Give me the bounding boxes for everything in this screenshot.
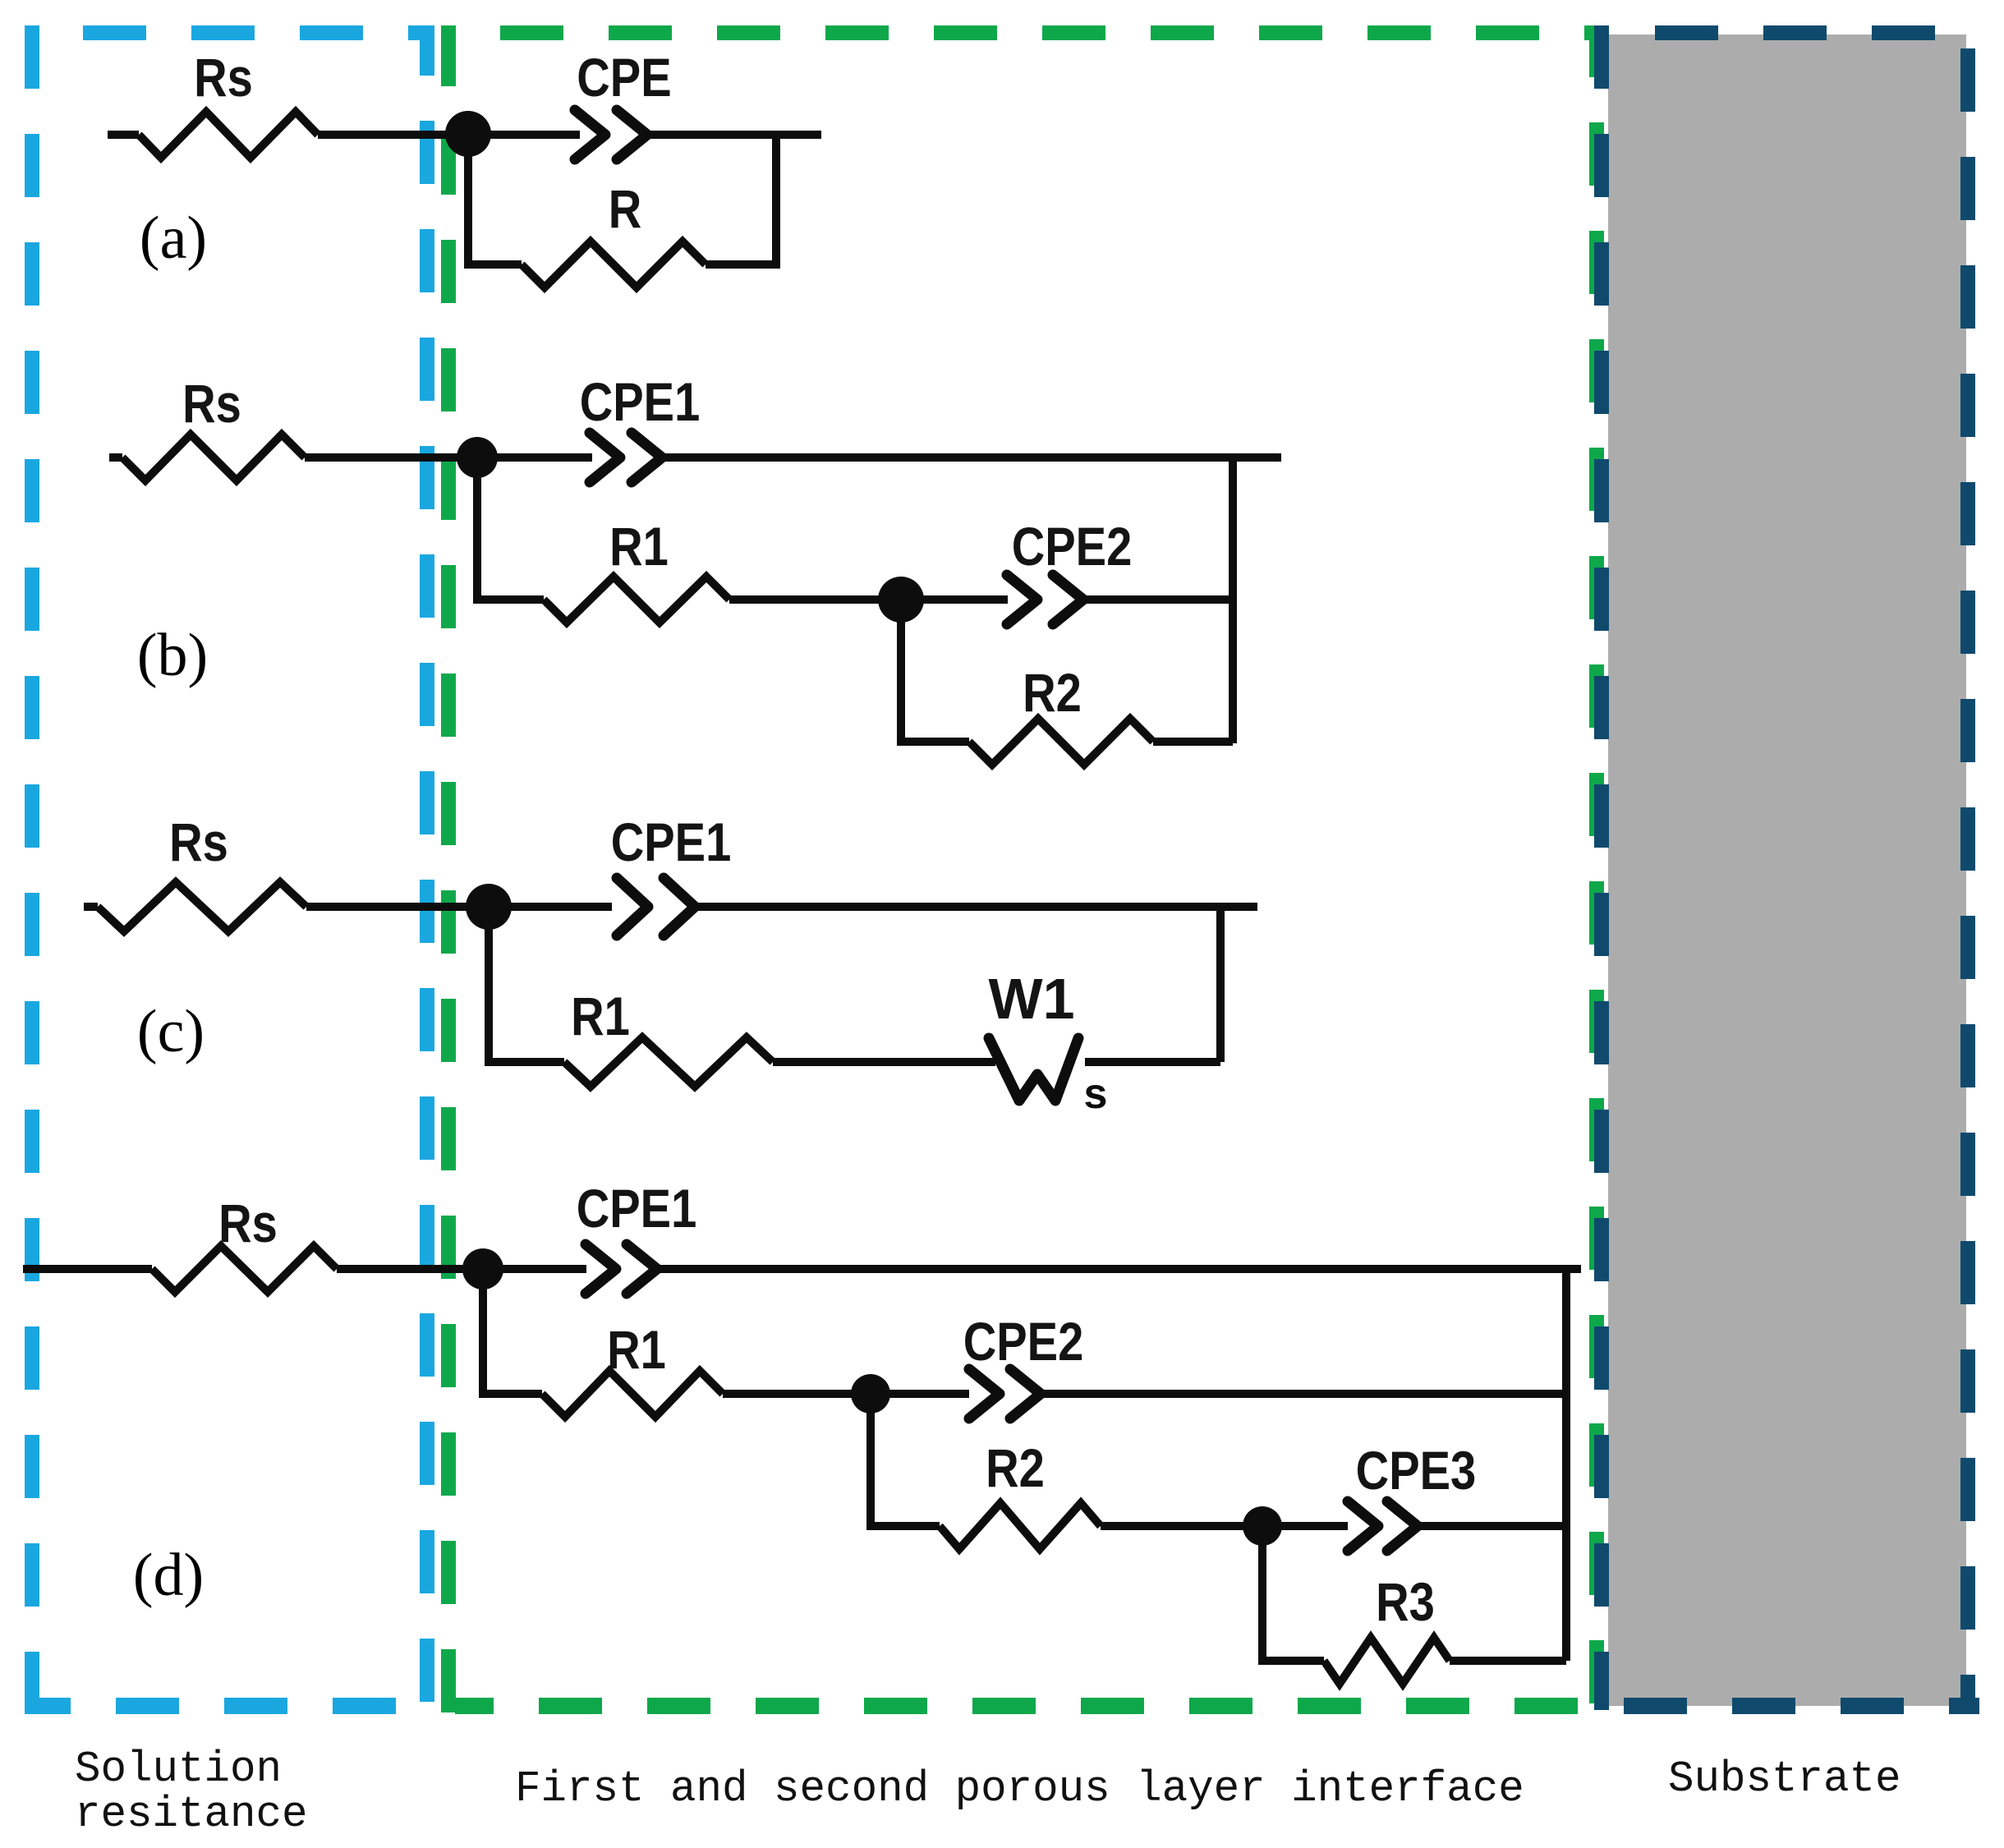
wire (c) right vertical [1216,907,1225,1062]
porous layer interface box (green dashed) left edge [441,25,456,1714]
solution resistance box (blue dashed) right edge [420,25,434,1714]
CPE (a) [575,110,605,159]
wire (d) node2 to CPE2 [871,1390,969,1398]
wire (d) CPE2 to right vertical [1044,1390,1566,1398]
wire (d) node3 to CPE3 [1262,1522,1348,1530]
wire (a) Rs to node [318,131,580,139]
svg-text:s: s [1084,1070,1108,1118]
wire (d) R3 loop left [1262,1531,1324,1661]
resistor Rs (c) [98,882,306,931]
wire (d) R1 to node2 [723,1390,871,1398]
svg-text:Rs: Rs [182,374,241,434]
porous layer interface box (green dashed) right edge [1589,25,1604,1714]
svg-text:Solution: Solution [75,1745,282,1794]
svg-text:R3: R3 [1376,1572,1435,1632]
wire (b) R2 loop left [901,605,969,742]
solution resistance box (blue dashed) top edge [83,25,434,40]
solution resistance box (blue dashed) left edge [25,25,39,1714]
resistor Rs (d) [152,1246,337,1292]
solution resistance box (blue dashed) bottom edge [25,1698,434,1714]
svg-text:Rs: Rs [218,1193,278,1253]
substrate box (navy dashed) top edge [1655,25,1968,40]
svg-text:(b): (b) [137,622,208,689]
resistor R (a) [522,241,706,287]
wire (c) Rs to node [306,903,612,911]
Warburg element Ws (c) [989,1038,1078,1101]
wire (d) Rs to node [337,1265,586,1273]
svg-text:R1: R1 [571,986,630,1046]
porous layer interface box (green dashed) top edge [500,25,1597,40]
wire (b) node2 to CPE2 [901,595,1008,604]
wire (b) CPE1 to right end [664,453,1281,462]
svg-text:Rs: Rs [194,48,253,108]
wire (b) Rs to node [305,453,592,462]
CPE2 (b) [1007,575,1037,624]
wire (c) Warburg to right vertical [1085,1058,1220,1066]
porous layer interface box (green dashed) bottom edge [455,1698,1597,1714]
svg-text:R2: R2 [1023,663,1082,723]
svg-text:CPE3: CPE3 [1356,1441,1477,1501]
svg-text:R1: R1 [607,1320,666,1380]
wire (b) right vertical [1229,457,1237,743]
wire (d) input lead [23,1265,152,1273]
substrate box (navy dashed) left edge [1594,25,1609,1710]
CPE1 (c) [617,878,648,935]
svg-text:First and second porous layer: First and second porous layer interface [515,1764,1524,1814]
svg-text:CPE1: CPE1 [611,812,732,872]
wire (a) CPE to end [650,131,821,139]
svg-text:R1: R1 [609,517,669,577]
substrate box (navy dashed) bottom edge [1602,1698,1979,1714]
svg-text:R2: R2 [986,1438,1045,1498]
node 1 (b) [457,437,498,478]
svg-text:resitance: resitance [75,1790,308,1839]
CPE1 (d) [586,1244,616,1294]
resistor R1 (b) [544,577,729,623]
wire (d) node2 down [871,1399,940,1526]
node 2 (b) [878,577,924,623]
node (c) [466,884,512,930]
wire (b) input lead [109,453,122,462]
svg-text:CPE1: CPE1 [577,1179,697,1239]
wire (c) R1 to Warburg [773,1058,995,1066]
svg-text:(a): (a) [140,205,207,272]
wire (c) CPE1 to right end [698,903,1257,911]
resistor R1 (d) [542,1371,723,1417]
node (a) [445,111,491,157]
wire (b) R2 to right vertical [1153,738,1233,746]
wire (b) R1 to node2 [729,595,901,604]
node 1 (d) [462,1248,503,1289]
resistor Rs (a) [139,112,318,158]
resistor R1 (c) [564,1037,773,1087]
wire (a) R to top wire [706,135,776,264]
svg-text:CPE2: CPE2 [1012,517,1133,577]
wire (b) CPE2 to right vertical [1087,595,1233,604]
CPE3 (d) [1348,1501,1378,1551]
wire (c) node down [489,912,564,1062]
wire (d) CPE1 to right end [660,1265,1581,1273]
svg-text:(c): (c) [137,998,205,1065]
svg-text:CPE1: CPE1 [580,372,701,432]
svg-text:CPE2: CPE2 [963,1312,1084,1372]
wire (d) right vertical [1562,1269,1570,1661]
wire (d) node1 down [483,1274,542,1394]
wire (d) R3 to right vertical [1450,1657,1566,1665]
CPE2 (d) [969,1369,1000,1418]
svg-text:CPE: CPE [577,48,671,108]
resistor Rs (b) [122,434,305,480]
wire (c) input lead [84,903,98,911]
CPE1 (b) [590,433,620,482]
wire (a) input lead [108,131,139,139]
wire (d) CPE3 to right vertical [1420,1522,1566,1530]
svg-text:Substrate: Substrate [1668,1754,1901,1804]
resistor R2 (b) [969,719,1153,765]
svg-text:R: R [609,179,642,239]
svg-text:(d): (d) [133,1542,204,1609]
wire (b) node1 down [477,462,544,600]
svg-text:Rs: Rs [169,812,228,872]
resistor R3 (d) [1324,1638,1450,1684]
wire (a) R parallel loop [468,140,522,264]
substrate box (navy dashed) right edge [1960,33,1975,1714]
node 3 (d) [1243,1506,1282,1546]
wire (d) R2 to node3 [1101,1522,1262,1530]
substrate region gray fill [1608,34,1966,1706]
svg-text:W1: W1 [989,967,1075,1031]
resistor R2 (d) [940,1503,1101,1549]
node 2 (d) [851,1374,890,1414]
